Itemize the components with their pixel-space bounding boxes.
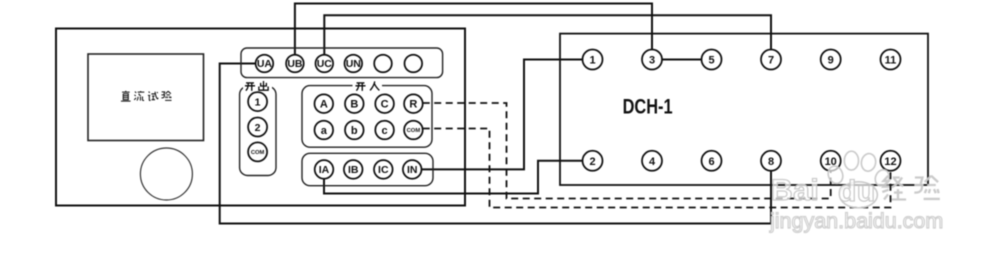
svg-text:IC: IC: [378, 164, 389, 176]
svg-text:C: C: [381, 99, 389, 111]
svg-text:Bai: Bai: [771, 174, 819, 207]
svg-text:8: 8: [768, 156, 774, 168]
svg-text:IA: IA: [319, 164, 330, 176]
svg-text:IN: IN: [407, 164, 418, 176]
svg-text:UC: UC: [317, 58, 333, 70]
svg-text:7: 7: [768, 55, 774, 67]
svg-text:R: R: [409, 99, 417, 111]
svg-text:b: b: [351, 125, 358, 137]
svg-text:6: 6: [708, 156, 714, 168]
svg-text:c: c: [382, 125, 388, 137]
svg-text:DCH-1: DCH-1: [623, 96, 673, 119]
svg-text:2: 2: [255, 122, 261, 134]
svg-text:jingyan.baidu.com: jingyan.baidu.com: [769, 209, 943, 233]
svg-text:11: 11: [885, 55, 897, 67]
svg-text:UB: UB: [287, 58, 303, 70]
svg-text:4: 4: [649, 156, 656, 168]
svg-text:COM: COM: [251, 150, 265, 156]
svg-text:12: 12: [884, 156, 896, 168]
svg-text:5: 5: [708, 55, 714, 67]
svg-text:COM: COM: [407, 128, 421, 134]
svg-text:A: A: [320, 99, 328, 111]
svg-text:3: 3: [649, 55, 655, 67]
svg-text:UA: UA: [257, 58, 273, 70]
svg-text:9: 9: [828, 55, 834, 67]
svg-text:1: 1: [589, 55, 595, 67]
svg-text:B: B: [350, 99, 358, 111]
svg-text:a: a: [321, 125, 328, 137]
svg-text:IB: IB: [348, 164, 359, 176]
svg-text:1: 1: [255, 96, 261, 108]
svg-text:UN: UN: [346, 58, 361, 70]
svg-text:2: 2: [589, 156, 595, 168]
svg-text:du: du: [838, 175, 876, 208]
